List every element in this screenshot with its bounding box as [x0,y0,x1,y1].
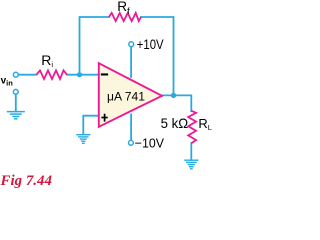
svg-text:5 kΩ: 5 kΩ [161,115,189,131]
svg-text:−10V: −10V [135,135,165,150]
svg-text:μA 741: μA 741 [107,89,145,103]
svg-text:+10V: +10V [137,37,164,52]
svg-text:Fig 7.44: Fig 7.44 [0,173,52,189]
